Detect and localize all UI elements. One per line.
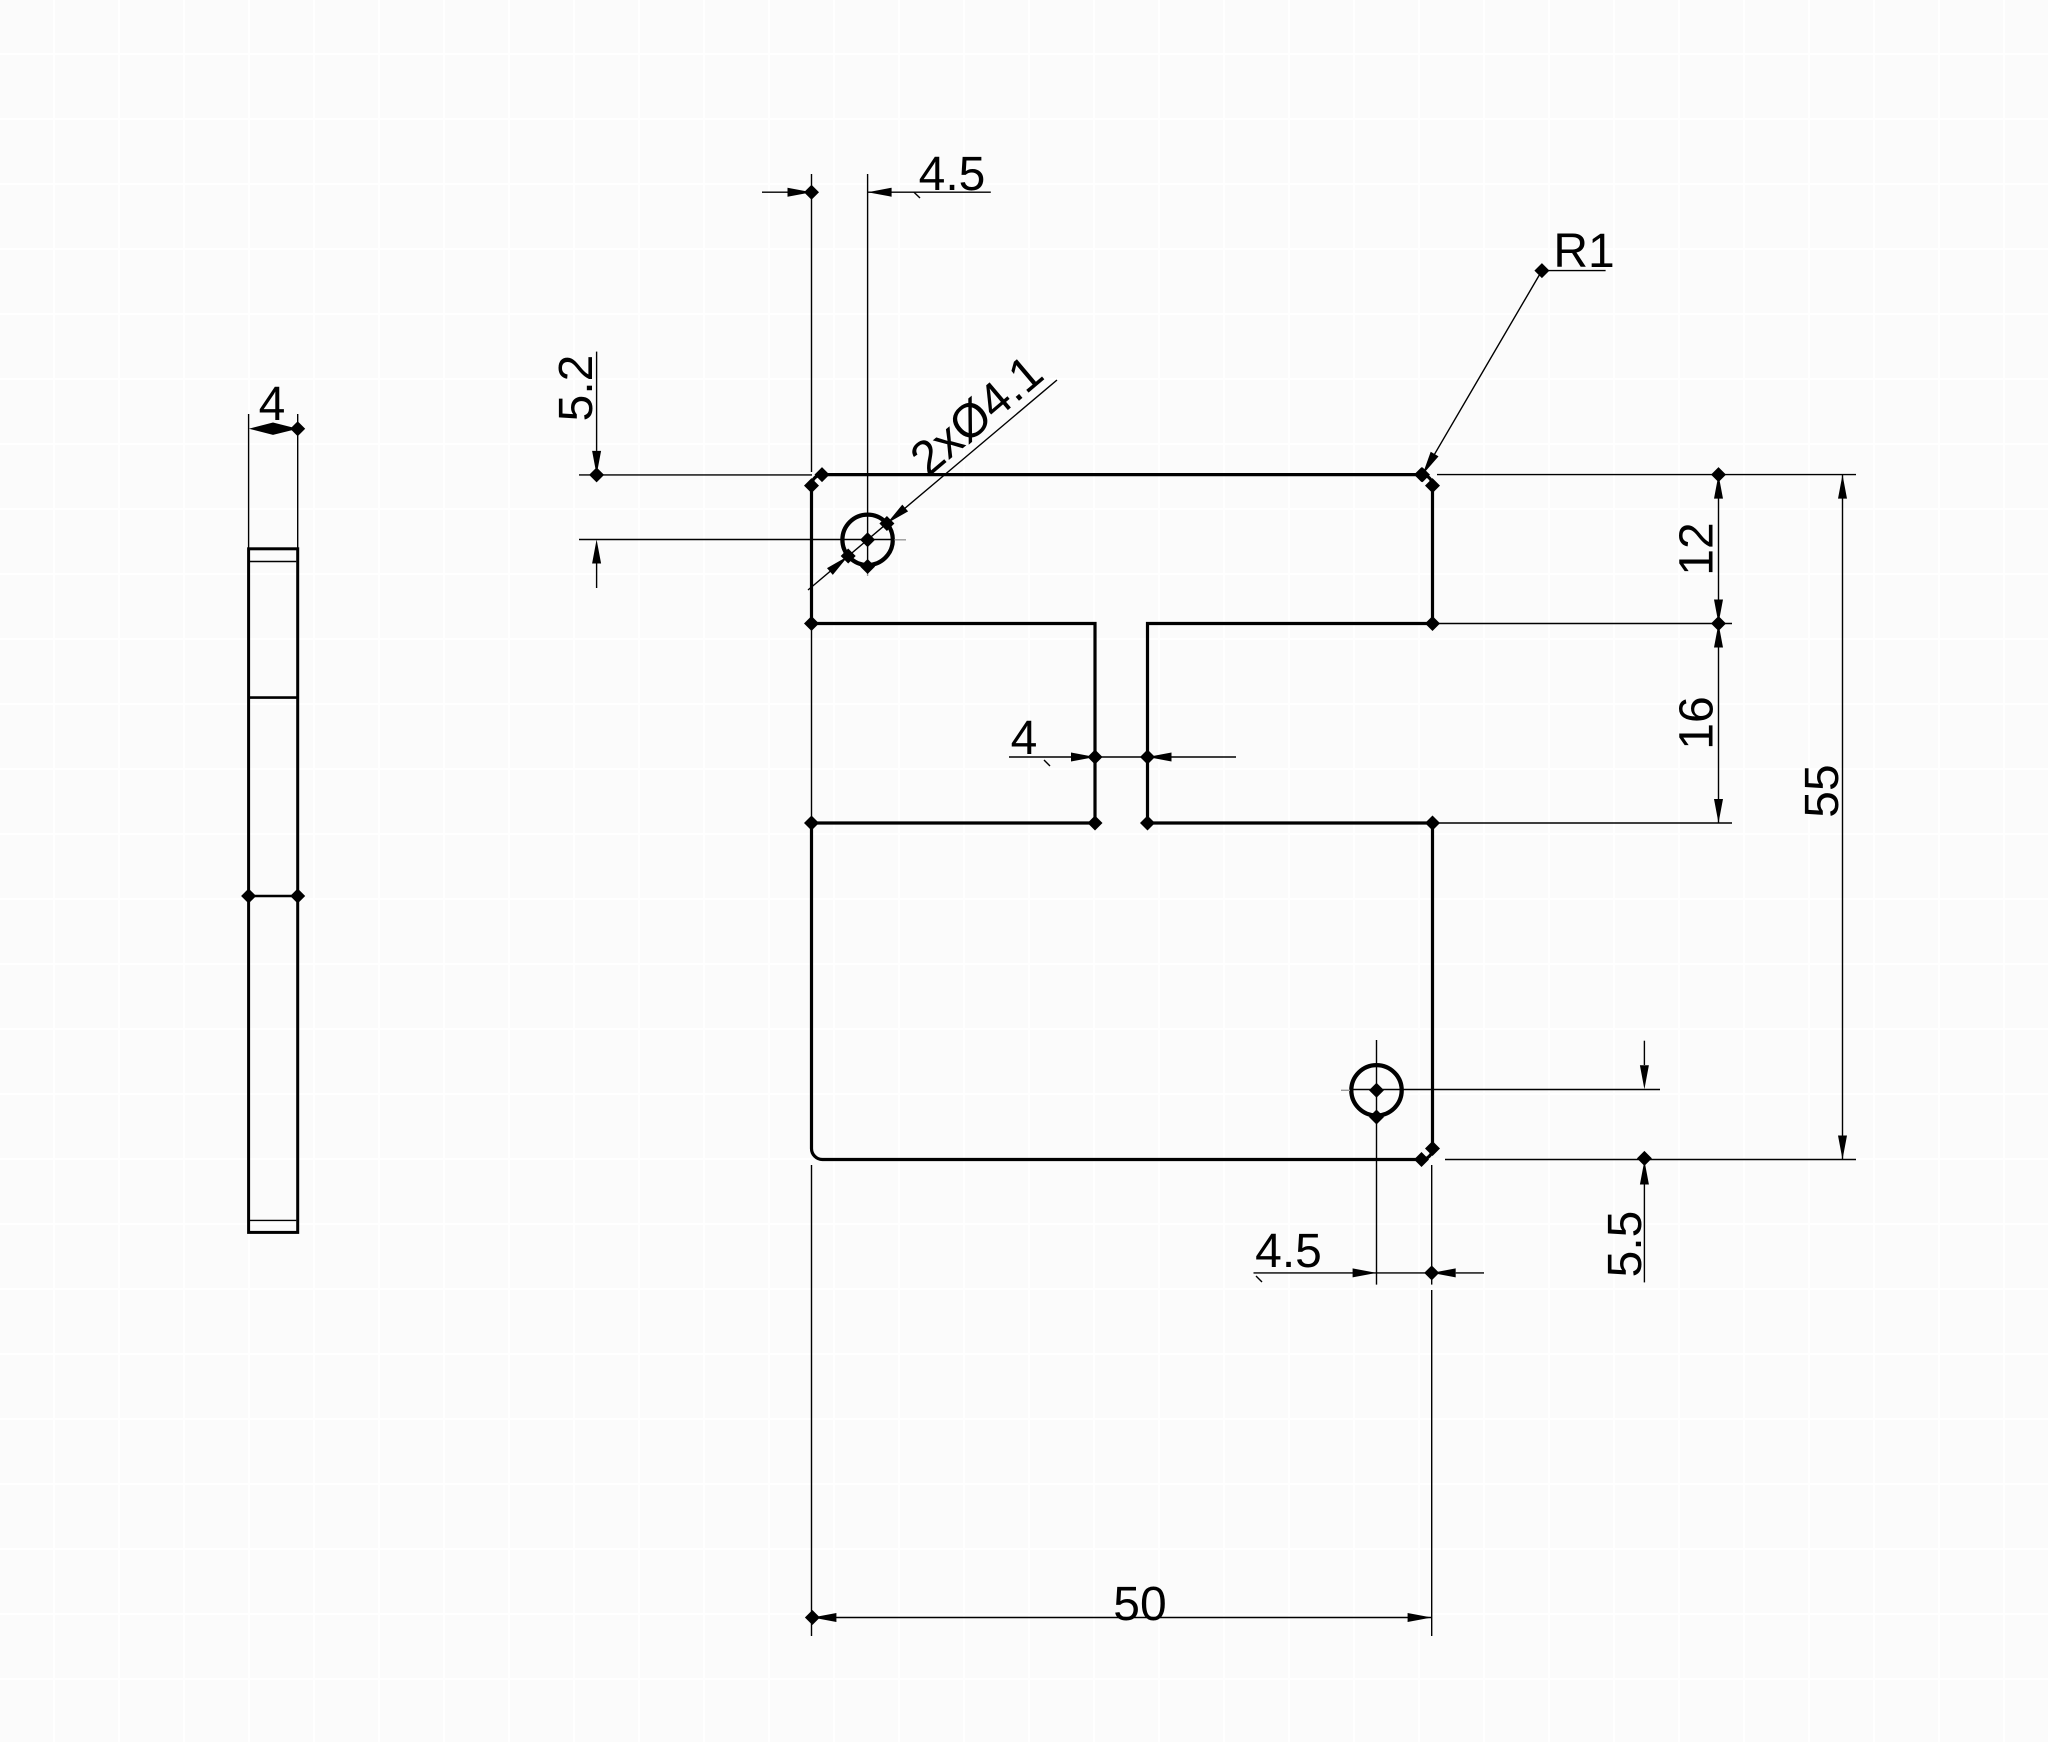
svg-text:12: 12 — [1671, 522, 1724, 575]
svg-text:50: 50 — [1113, 1578, 1166, 1631]
dimension 50 bottom: dimension line and arrows — [812, 1617, 1431, 1619]
dimension 12 right: dimension line and arrows — [1718, 475, 1720, 624]
svg-text:R1: R1 — [1553, 225, 1614, 278]
side view slot edge line — [249, 895, 298, 898]
leader 2xO4.1: leader line — [808, 380, 1057, 590]
dimension 4 side view: dimension line and double arrow — [249, 423, 298, 435]
dimension 4 neck: dimension line and arrows — [1009, 756, 1095, 758]
hole bottom-right horizontal centerline — [1341, 1089, 1350, 1091]
svg-text:4: 4 — [259, 378, 286, 431]
dimension 16 right: text — [1671, 696, 1724, 749]
dimension 5.5 right: dimension line and arrows — [1643, 1041, 1645, 1065]
leader 2xO4.1: arrowheads — [887, 505, 908, 524]
dimension 16 right: extension line — [1437, 822, 1732, 824]
leader 2xO4.1: text — [901, 346, 1053, 486]
dimension 4 side view: extension lines — [248, 414, 250, 548]
svg-text:16: 16 — [1671, 696, 1724, 749]
side view bottom R1 tangent line — [250, 1219, 296, 1221]
dimension 4.5 bottom: dimension line and arrows — [1254, 1272, 1432, 1274]
leader R1: line — [1423, 271, 1606, 475]
svg-text:4: 4 — [1011, 712, 1038, 765]
hole top-left 2xO4.1 — [842, 515, 892, 565]
dimension 55 right: text — [1796, 764, 1849, 817]
dimension 12 right: text — [1671, 522, 1724, 575]
side view plate outline — [249, 549, 298, 1233]
dimension 16 right: dimension line and arrows — [1718, 624, 1720, 824]
side view top R1 tangent line — [250, 561, 296, 563]
dimension 55 right: dimension line and arrows — [1842, 475, 1844, 1160]
dimension 12 right: extension lines — [1437, 474, 1856, 476]
svg-text:2xØ4.1: 2xØ4.1 — [901, 346, 1053, 486]
hole top-left horizontal centerline — [579, 539, 894, 541]
main view part outline — [812, 475, 1433, 1160]
dimension 50 bottom: extension lines — [811, 1165, 813, 1636]
dimension 5.2 left: extension lines — [579, 474, 812, 476]
leader R1: arrowhead — [1423, 452, 1439, 475]
dimension 5.2 left: text — [550, 355, 603, 422]
hole bottom-right vertical centerline — [1376, 1040, 1378, 1285]
svg-text:4.5: 4.5 — [1255, 1225, 1322, 1278]
vertex node markers — [815, 467, 830, 482]
svg-text:55: 55 — [1796, 764, 1849, 817]
dimension 5.5 right: text — [1599, 1211, 1652, 1278]
dimension 4.5 top: extension lines — [811, 174, 813, 472]
dimension 55 right: extension line bottom — [1445, 1159, 1856, 1161]
dimension 4.5 top: dimension line and arrows — [762, 191, 812, 193]
dimension 4 neck: node markers — [1088, 750, 1103, 765]
side view tab edge line — [249, 696, 298, 699]
svg-text:4.5: 4.5 — [919, 148, 986, 201]
hole top-left vertical centerline — [867, 174, 869, 567]
svg-text:5.5: 5.5 — [1599, 1211, 1652, 1278]
left edge extension through notch — [811, 624, 813, 824]
dimension 5.2 left: dimension line and arrows — [596, 352, 598, 451]
svg-text:5.2: 5.2 — [550, 355, 603, 422]
hole bottom-right 2xO4.1 — [1351, 1065, 1401, 1115]
dimension 4.5 bottom: extension line right — [1431, 1165, 1433, 1285]
